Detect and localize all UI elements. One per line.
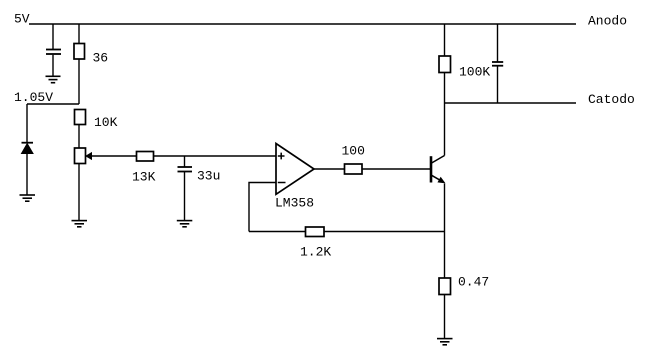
svg-text:100: 100 bbox=[342, 144, 365, 159]
resistor 0.47 bbox=[439, 278, 451, 339]
ground (under 0.47) bbox=[437, 339, 453, 345]
wire collector bbox=[444, 103, 446, 156]
transistor Q1 (NPN) bbox=[431, 156, 445, 183]
svg-text:36: 36 bbox=[93, 51, 109, 66]
wire feedback bbox=[249, 231, 445, 233]
wiper arrow of P1 bbox=[86, 153, 137, 159]
capacitor C2 (output) bbox=[492, 24, 503, 103]
svg-text:33u: 33u bbox=[197, 169, 220, 184]
svg-text:LM358: LM358 bbox=[275, 196, 314, 211]
resistor 36 bbox=[74, 24, 85, 104]
ground (under 33u) bbox=[177, 221, 193, 227]
wire Catodo line bbox=[445, 102, 577, 104]
wire top 5V rail bbox=[29, 23, 576, 25]
svg-text:Catodo: Catodo bbox=[588, 92, 635, 107]
op-amp U1 LM358 bbox=[276, 144, 314, 195]
resistor 100K bbox=[439, 24, 451, 103]
svg-text:0.47: 0.47 bbox=[458, 275, 489, 290]
ground (under C1) bbox=[46, 76, 61, 82]
svg-text:5V: 5V bbox=[14, 12, 30, 27]
svg-text:Anodo: Anodo bbox=[588, 14, 627, 29]
wire 1.05V node bbox=[27, 103, 79, 105]
wire inverting input bbox=[249, 183, 276, 232]
svg-text:1.2K: 1.2K bbox=[300, 245, 331, 260]
resistor 1.2K bbox=[306, 227, 325, 237]
ground (under P1) bbox=[72, 221, 88, 227]
svg-text:1.05V: 1.05V bbox=[14, 90, 53, 105]
svg-text:13K: 13K bbox=[132, 170, 156, 185]
resistor 10K bbox=[75, 110, 86, 149]
capacitor 33u bbox=[178, 156, 193, 221]
wire emitter down bbox=[444, 184, 446, 279]
ground (under D1) bbox=[20, 195, 36, 201]
svg-text:100K: 100K bbox=[459, 65, 490, 80]
diode D1 (reference) bbox=[22, 104, 34, 195]
capacitor C1 (5V rail bypass) bbox=[46, 24, 61, 76]
resistor 13K bbox=[137, 152, 277, 162]
wire op-amp output bbox=[314, 168, 345, 170]
svg-text:10K: 10K bbox=[94, 115, 118, 130]
potentiometer P1 bbox=[75, 148, 86, 221]
resistor 100 bbox=[345, 164, 432, 174]
